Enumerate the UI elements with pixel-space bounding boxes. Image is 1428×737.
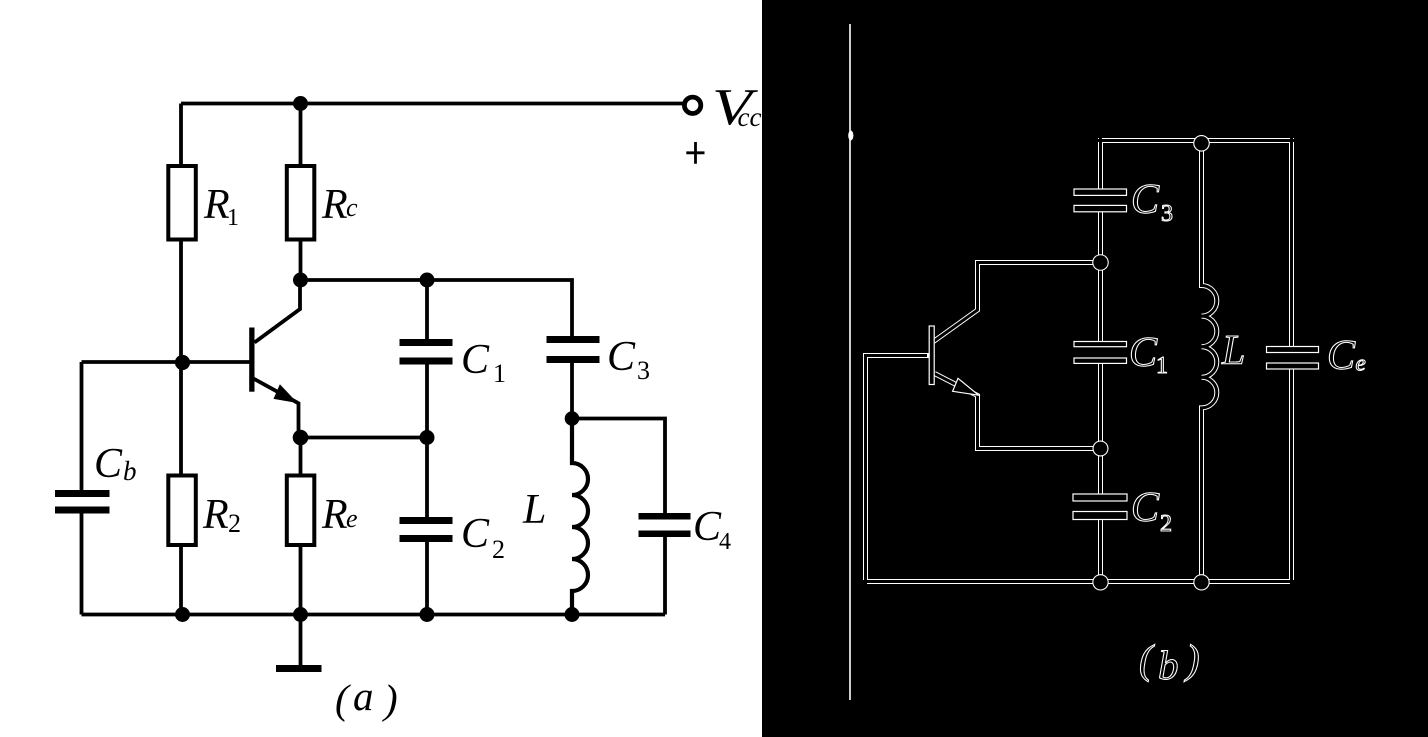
svg-text:b: b (123, 456, 137, 486)
wire top rail b (1101, 138, 1292, 143)
svg-text:C: C (1129, 330, 1158, 376)
svg-text:C: C (1131, 485, 1160, 531)
white under-strokes (outer edges of outlined wires) (866, 138, 1292, 582)
svg-text:C: C (1131, 177, 1160, 223)
ground (276, 615, 322, 673)
node dots panel a (175, 96, 580, 622)
transistor Q1 (249, 280, 300, 438)
wire Re branch upper (299, 438, 303, 476)
labels panel (b) : outlined white text (1129, 177, 1366, 688)
outlined component bodies (929, 189, 1318, 520)
speck on divider (848, 131, 853, 141)
svg-text:R: R (321, 182, 348, 228)
resistor Rc (287, 166, 315, 240)
svg-text:C: C (693, 504, 722, 550)
resistor R1 (168, 166, 196, 240)
svg-text:cc: cc (738, 102, 762, 132)
plus sign (686, 142, 704, 164)
capacitor C1 b plates (1074, 342, 1127, 347)
wire C1b vertical (1098, 263, 1103, 449)
wire bottom ground rail (82, 613, 666, 617)
wire C3b upper (1098, 138, 1103, 189)
transistor Q1 b bar (929, 326, 934, 385)
black background panel (762, 0, 1428, 737)
svg-text:R: R (203, 182, 230, 228)
wire collector rail to C3 (301, 280, 573, 336)
wire emitter rail (301, 436, 428, 440)
svg-text:R: R (321, 492, 348, 538)
wire Rc branch upper (299, 104, 303, 167)
svg-text:4: 4 (719, 529, 731, 555)
capacitor C2 (400, 517, 453, 542)
resistor R2 (168, 476, 196, 546)
svg-text:2: 2 (1160, 511, 1172, 537)
wire R1 to base node to R2 (179, 240, 183, 476)
wire L top to C4 (572, 419, 665, 514)
wire C1 to C2 (425, 365, 429, 518)
svg-text:e: e (1356, 351, 1366, 376)
inductor L (572, 419, 588, 615)
wire Cb to bottom rail (80, 514, 84, 615)
wire bottom rail b (866, 579, 1292, 584)
svg-text:(: ( (335, 676, 351, 722)
wire R1 branch upper (179, 104, 183, 167)
wire emitter b (935, 374, 1101, 449)
svg-text:1: 1 (227, 205, 239, 231)
svg-text:C: C (1327, 333, 1356, 379)
wire R2 to bottom rail (179, 545, 183, 615)
svg-text:c: c (346, 193, 358, 222)
wire C2 to bottom rail (425, 542, 429, 615)
capacitor Cb (55, 490, 110, 514)
svg-text:e: e (346, 504, 358, 533)
divider white line (849, 24, 851, 700)
svg-text:(: ( (1139, 636, 1155, 682)
wire Rc to collector (299, 240, 303, 281)
svg-text:b: b (1158, 642, 1179, 688)
svg-text:1: 1 (493, 359, 506, 388)
wire base b + left loop (866, 356, 930, 582)
svg-text:C: C (461, 511, 490, 557)
svg-text:a: a (353, 673, 374, 719)
svg-text:1: 1 (1156, 353, 1168, 379)
svg-text:): ) (382, 676, 398, 722)
black core strokes overlay (863, 138, 1294, 584)
svg-text:C: C (461, 337, 490, 383)
capacitor C3 (547, 336, 600, 363)
wire C4 to bottom rail (663, 537, 667, 615)
transistor Q1 b emitter arrowhead (953, 378, 979, 395)
svg-text:2: 2 (228, 509, 241, 538)
wire Cb branch upper (80, 362, 84, 490)
wire C1 branch upper (425, 280, 429, 339)
svg-text:C: C (607, 334, 636, 380)
svg-text:C: C (94, 441, 123, 487)
node Vcc terminal circle (684, 97, 700, 113)
capacitor C3 b plates (1074, 189, 1127, 195)
wire Re to bottom rail (299, 545, 303, 615)
capacitor C4 (639, 513, 691, 537)
svg-text:): ) (1184, 636, 1200, 682)
svg-text:3: 3 (637, 356, 650, 385)
wire top supply rail (181, 102, 683, 106)
labels panel (a) (94, 78, 761, 722)
wire C3 lower (570, 363, 574, 419)
capacitor Ce plates (1267, 347, 1319, 353)
svg-text:L: L (1221, 328, 1245, 374)
capacitor C2 b plates (1073, 494, 1127, 501)
capacitor C1 (400, 339, 453, 365)
svg-text:R: R (202, 492, 229, 538)
resistor Re (287, 476, 315, 546)
svg-text:2: 2 (492, 535, 505, 564)
node ring dots panel b (1092, 135, 1210, 591)
wire collector b (934, 263, 1101, 342)
inductor L b (1202, 141, 1217, 582)
wire C3b lower to node (1098, 212, 1103, 263)
wire Ce branch (1289, 138, 1294, 582)
svg-text:3: 3 (1161, 201, 1173, 227)
wire base horizontal (82, 360, 250, 364)
wire C2b vertical (1098, 449, 1103, 582)
svg-text:L: L (522, 487, 546, 533)
